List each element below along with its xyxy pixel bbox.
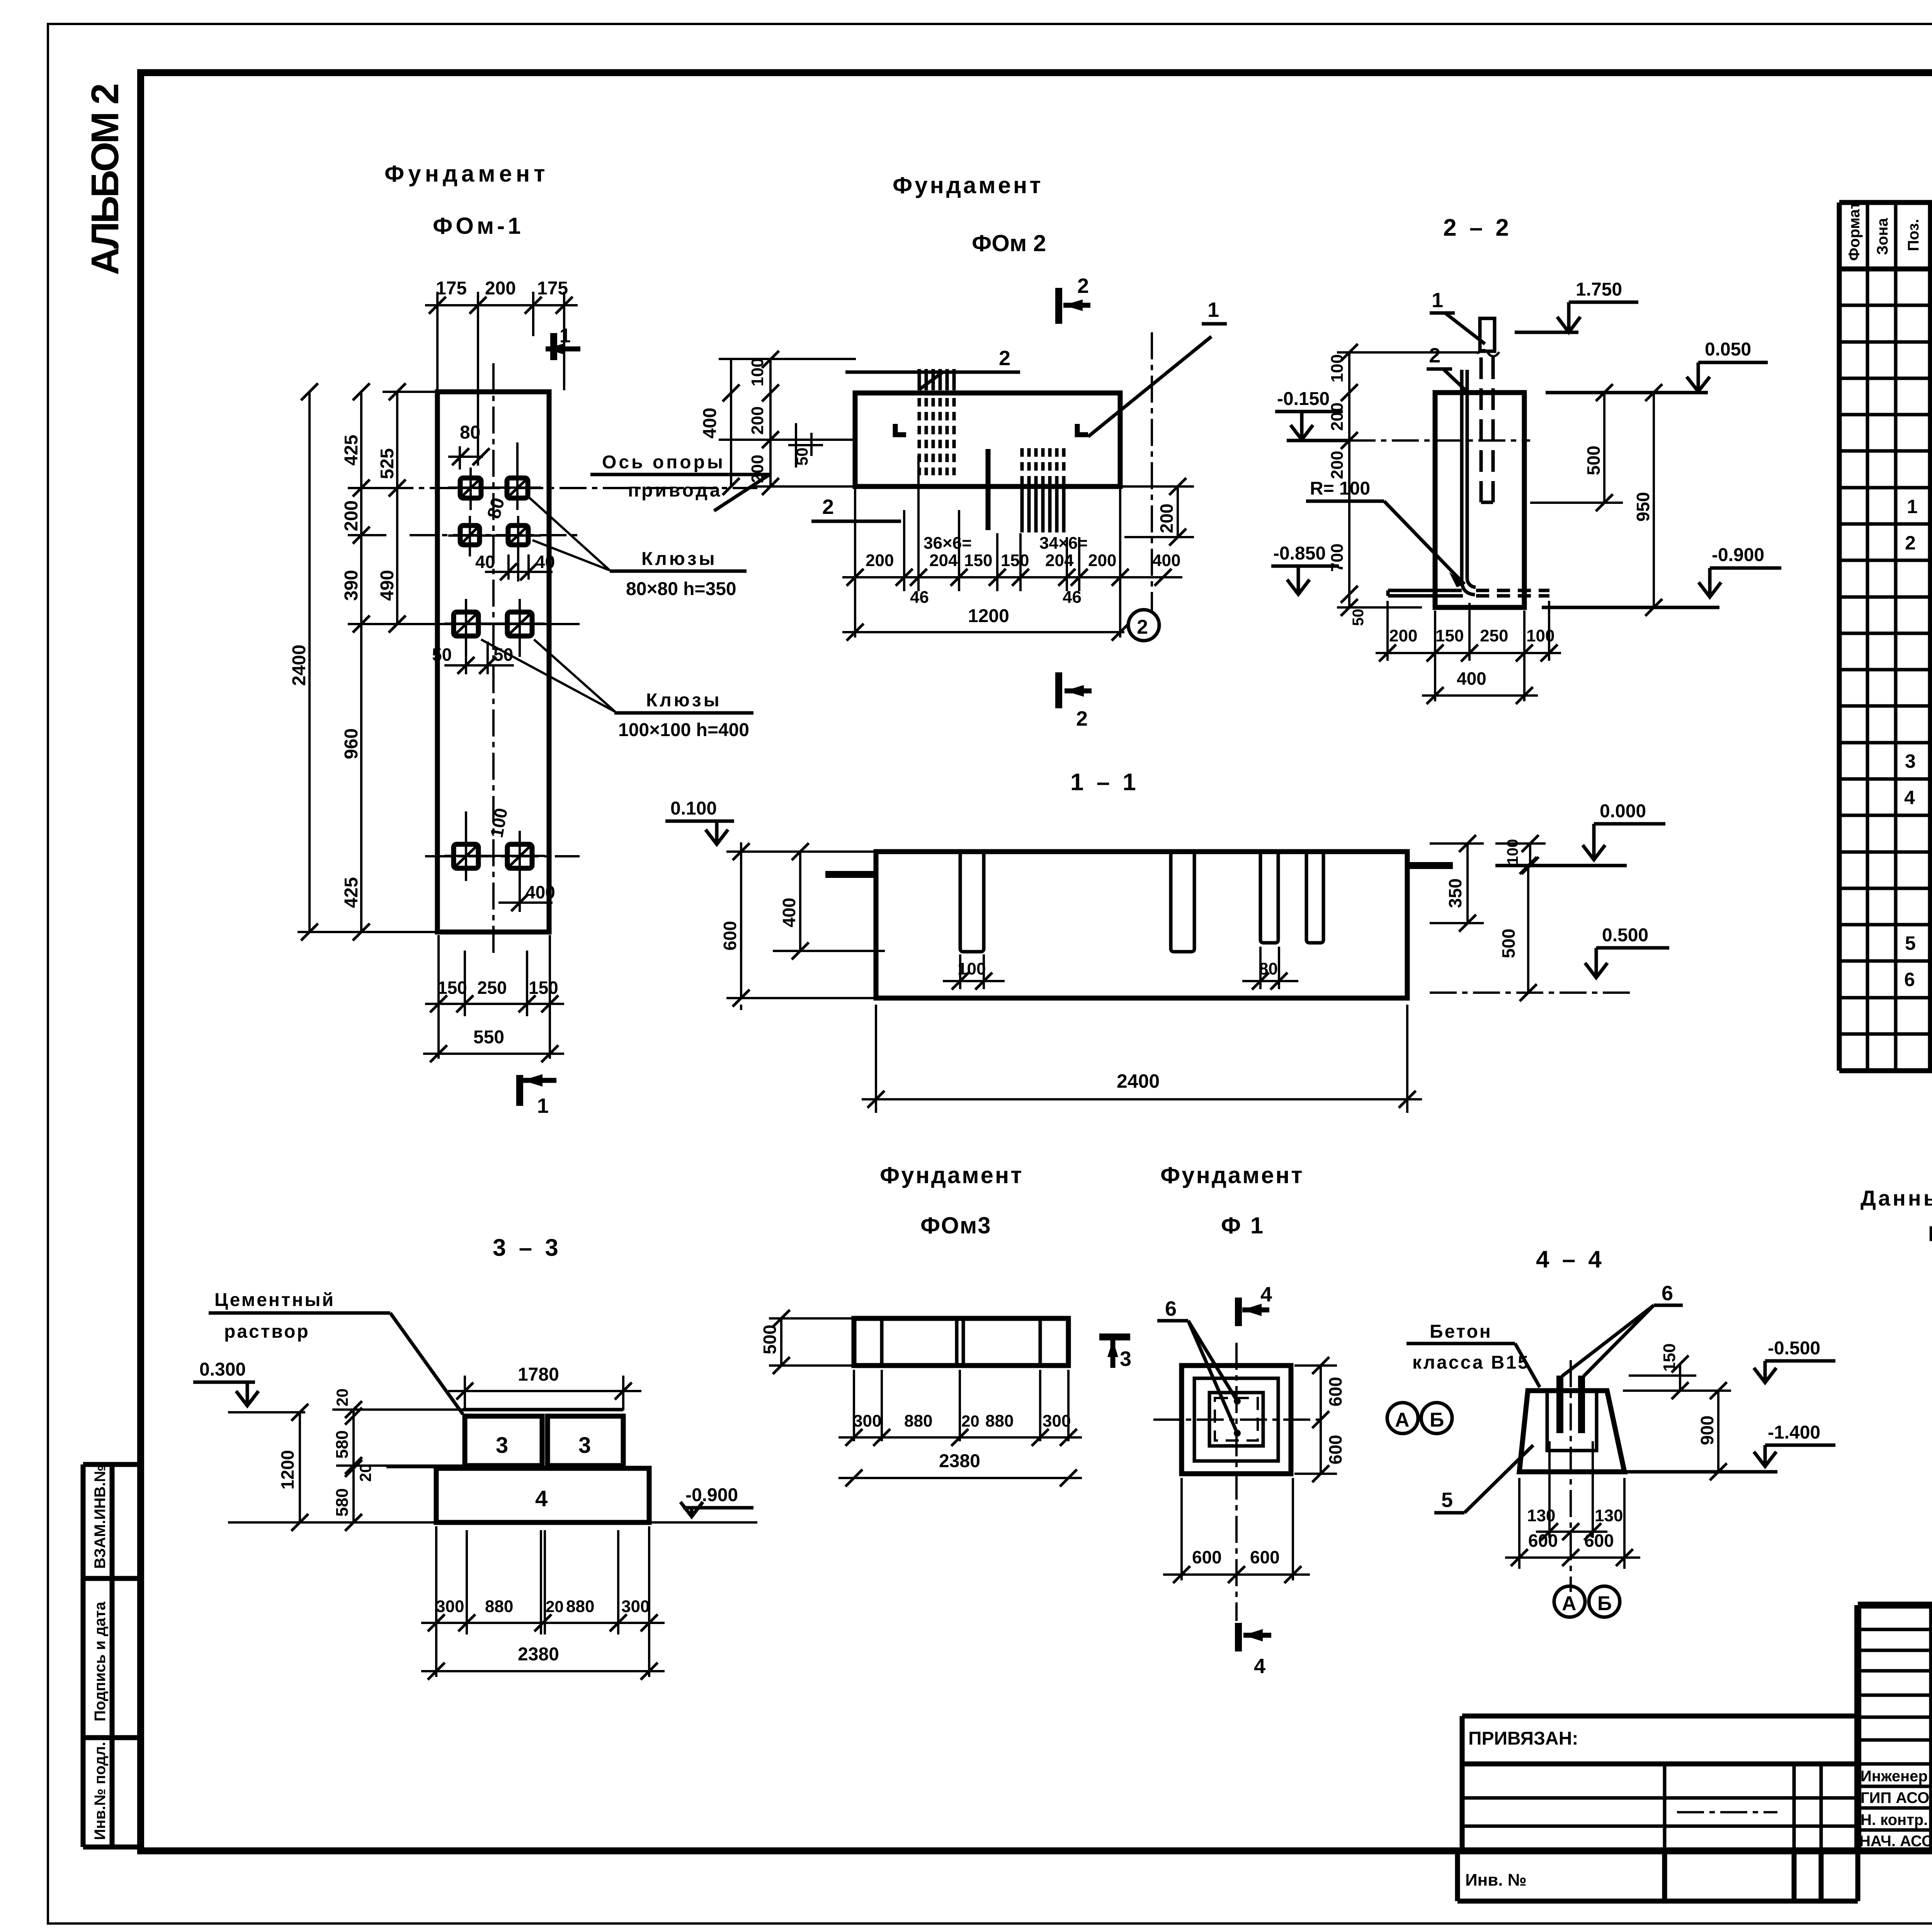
svg-text:2: 2 (822, 495, 834, 519)
svg-text:3: 3 (1905, 750, 1916, 772)
svg-text:425: 425 (341, 435, 362, 466)
svg-text:2: 2 (1429, 344, 1440, 367)
svg-text:900: 900 (1697, 1415, 1717, 1445)
svg-text:350: 350 (1445, 878, 1465, 908)
TITLEBLOCK (1458, 1605, 1932, 1901)
SEC33 (193, 1235, 757, 1680)
svg-text:150: 150 (437, 978, 467, 998)
leaders to kluyz squares (529, 498, 610, 570)
svg-text:960: 960 (341, 728, 362, 759)
svg-text:150: 150 (1660, 1344, 1679, 1372)
svg-text:ФОм3: ФОм3 (920, 1213, 992, 1238)
svg-text:2380: 2380 (939, 1451, 980, 1471)
svg-text:2: 2 (1076, 707, 1088, 730)
svg-text:-1.400: -1.400 (1768, 1422, 1820, 1443)
svg-text:204: 204 (929, 551, 958, 570)
dim 50 (788, 423, 823, 468)
block 4 (436, 1468, 649, 1522)
svg-text:5: 5 (1905, 932, 1916, 954)
svg-text:250: 250 (1480, 626, 1508, 645)
svg-text:200: 200 (1389, 626, 1417, 645)
svg-text:ФОм-1: ФОм-1 (433, 213, 524, 239)
svg-text:раствор: раствор (224, 1321, 310, 1342)
leader 1 to pipe (1430, 289, 1485, 344)
svg-text:100×100 h=400: 100×100 h=400 (618, 720, 749, 740)
inner dashed square (1215, 1398, 1258, 1440)
svg-text:20: 20 (356, 1464, 374, 1482)
svg-text:2: 2 (1905, 532, 1916, 554)
svg-text:600: 600 (720, 921, 740, 951)
svg-text:НАЧ. АСО: НАЧ. АСО (1859, 1833, 1932, 1850)
internal joints (882, 1318, 1040, 1366)
svg-text:класса В15: класса В15 (1412, 1352, 1530, 1373)
level -0.500 (1754, 1338, 1835, 1383)
level 0.500 (1430, 925, 1669, 993)
left dim 400 (773, 852, 885, 951)
svg-text:2: 2 (999, 347, 1010, 370)
slot 1 (960, 852, 984, 952)
dim 2380 (838, 1477, 1082, 1479)
svg-text:600: 600 (1250, 1547, 1280, 1567)
svg-text:300: 300 (436, 1597, 464, 1616)
svg-text:200: 200 (1328, 403, 1347, 431)
svg-text:950: 950 (1633, 492, 1653, 522)
svg-text:600: 600 (1325, 1377, 1345, 1406)
svg-text:20: 20 (546, 1597, 564, 1616)
svg-text:200: 200 (748, 455, 767, 483)
svg-text:0.500: 0.500 (1602, 925, 1648, 946)
svg-text:ПРИВЯЗАН:: ПРИВЯЗАН: (1468, 1728, 1578, 1749)
section mark 3 (right) (1099, 1337, 1131, 1371)
left dim chain 20/580/20/580 (286, 1410, 464, 1522)
left dim chain of 2-2 (1337, 352, 1480, 607)
slot 2 (1171, 852, 1194, 952)
svg-text:400: 400 (1152, 551, 1180, 570)
svg-text:4: 4 (1904, 787, 1915, 808)
leader 2 (bottom-left) (811, 495, 901, 521)
svg-text:200: 200 (485, 278, 516, 299)
FOm3 plan bar (854, 1318, 1068, 1366)
svg-text:Фундамент: Фундамент (384, 161, 549, 187)
svg-text:46: 46 (1063, 588, 1082, 607)
svg-text:Б: Б (1430, 1409, 1444, 1431)
svg-text:400: 400 (526, 882, 555, 902)
svg-text:400: 400 (700, 408, 720, 439)
svg-text:580: 580 (333, 1430, 352, 1459)
horizontal bar left (solid) (1388, 590, 1463, 596)
svg-text:АЛЬБОМ 2: АЛЬБОМ 2 (83, 85, 127, 275)
svg-text:1200: 1200 (277, 1450, 298, 1490)
section mark 2 (bottom) (1059, 672, 1092, 730)
svg-text:-0.900: -0.900 (685, 1485, 738, 1505)
svg-text:46: 46 (910, 588, 929, 607)
kluyz square r4-left (454, 844, 478, 868)
FOM1 (289, 278, 770, 1117)
svg-text:Поз.: Поз. (1905, 219, 1922, 251)
protruding bar left (825, 871, 876, 878)
svg-text:-0.500: -0.500 (1768, 1338, 1820, 1359)
NOTE (1861, 1186, 1932, 1246)
section mark 2 (top) (1059, 274, 1090, 324)
svg-text:Ф 1: Ф 1 (1221, 1213, 1265, 1238)
block 3 right (548, 1416, 623, 1466)
svg-text:34×6=: 34×6= (1039, 534, 1088, 553)
svg-text:36×6=: 36×6= (923, 534, 972, 553)
SEC22 (1271, 214, 1781, 704)
svg-text:6: 6 (1662, 1282, 1673, 1305)
dim 40 40 row2 (485, 554, 553, 580)
section mark 4 (top) (1238, 1283, 1272, 1326)
pipe above (solid) (1480, 318, 1495, 351)
svg-text:600: 600 (1584, 1531, 1614, 1551)
level -1.400 (1624, 1422, 1835, 1472)
svg-text:50: 50 (793, 447, 811, 466)
svg-text:880: 880 (485, 1597, 513, 1616)
leader 6 (4-4) (1562, 1282, 1683, 1376)
anchor angle bar bend + horizontal (1462, 580, 1476, 595)
svg-text:200: 200 (1156, 503, 1177, 533)
svg-text:3: 3 (578, 1433, 591, 1458)
svg-text:-0.850: -0.850 (1273, 543, 1326, 564)
svg-text:5: 5 (1441, 1488, 1453, 1512)
svg-text:500: 500 (1498, 929, 1519, 958)
level -0.150 (1275, 389, 1530, 440)
svg-text:ФОм 2: ФОм 2 (972, 230, 1046, 256)
F1 (1153, 1162, 1452, 1678)
svg-text:0.000: 0.000 (1600, 801, 1646, 821)
trapezoid footing (1519, 1391, 1624, 1472)
svg-text:100: 100 (957, 959, 986, 978)
svg-text:Зона: Зона (1874, 218, 1891, 255)
leader 5 (1434, 1445, 1533, 1513)
svg-text:Клюзы: Клюзы (641, 549, 717, 569)
protruding bar right (1407, 862, 1453, 869)
right dim 100 (1495, 844, 1546, 866)
cement mortar joint line (463, 1408, 623, 1412)
dim 2380 (421, 1670, 665, 1672)
dim 100 under slot1 (943, 954, 1005, 989)
svg-text:4: 4 (1260, 1283, 1272, 1306)
svg-text:390: 390 (341, 570, 362, 601)
slab profile (876, 852, 1407, 998)
svg-text:525: 525 (377, 448, 398, 479)
centerline row 2 (410, 534, 580, 536)
svg-text:Подпись и дата: Подпись и дата (92, 1601, 109, 1721)
svg-text:100: 100 (748, 358, 767, 386)
dim 900 right (1623, 1391, 1731, 1472)
dim 80 under slot3 (1242, 947, 1298, 989)
dash-dot in cell (1677, 1811, 1777, 1813)
svg-text:300: 300 (621, 1597, 650, 1616)
leader 1 (1088, 298, 1227, 437)
foundation FOm2 outline (855, 393, 1120, 486)
svg-text:Б: Б (1597, 1592, 1612, 1615)
leader 2 (top) (845, 347, 1020, 389)
bottom dim 400 (1422, 694, 1538, 697)
inventory band below frame (1458, 1851, 1858, 1901)
label R=100 (1306, 478, 1464, 587)
angle corner mark left (pos.1) (895, 424, 906, 435)
level -0.900 (3-3) (680, 1485, 753, 1517)
anchor angle bar vertical (1462, 370, 1467, 582)
table grid vertical lines (1839, 202, 1932, 1071)
svg-text:80×80 h=350: 80×80 h=350 (626, 579, 736, 599)
svg-text:200: 200 (1088, 551, 1116, 570)
svg-text:2380: 2380 (518, 1644, 559, 1665)
right dim 350 (1430, 844, 1484, 923)
svg-text:Формат: Формат (1846, 202, 1863, 261)
leader 2 to angle (1427, 344, 1466, 390)
svg-text:ГИП АСО: ГИП АСО (1861, 1789, 1929, 1806)
section mark 1 (top) (546, 325, 580, 360)
svg-text:6: 6 (1165, 1297, 1177, 1320)
centre divider bar (986, 449, 991, 530)
left dim chain 100/200/200 (719, 359, 856, 486)
table grid horizontal lines (1839, 202, 1932, 1071)
svg-text:300: 300 (853, 1412, 881, 1430)
bottom dim chain 200/150/250/100 (1376, 601, 1561, 701)
svg-text:КЖ1 и КЖ2.: КЖ1 и КЖ2. (1928, 1221, 1932, 1246)
dim 80 above row1 squares (448, 446, 483, 469)
svg-text:0.300: 0.300 (199, 1359, 246, 1380)
svg-text:150: 150 (964, 551, 992, 570)
svg-text:1 – 1: 1 – 1 (1070, 769, 1139, 796)
chain ticks (301, 383, 318, 400)
left dim chain verticals (298, 392, 439, 932)
svg-text:600: 600 (1192, 1547, 1222, 1567)
svg-text:1780: 1780 (518, 1364, 559, 1385)
axis dash-dot down to circle 2 (1151, 332, 1153, 611)
center line (1570, 1360, 1572, 1592)
horizontal bar right (dashed) (1476, 590, 1549, 596)
svg-text:150: 150 (529, 978, 558, 998)
svg-text:Клюзы: Клюзы (646, 690, 722, 711)
svg-text:2400: 2400 (289, 645, 310, 686)
pipe break squiggle (1477, 350, 1499, 356)
bolts (1556, 1376, 1563, 1433)
svg-text:Фундамент: Фундамент (880, 1162, 1024, 1188)
svg-text:2400: 2400 (1117, 1070, 1160, 1092)
right dim 500 (1530, 393, 1623, 503)
svg-text:R= 100: R= 100 (1310, 478, 1370, 499)
svg-text:425: 425 (341, 877, 362, 908)
kluyz square r2-right (508, 526, 528, 545)
svg-text:4: 4 (1254, 1655, 1265, 1678)
svg-text:150: 150 (1001, 551, 1029, 570)
svg-text:20: 20 (333, 1388, 351, 1406)
svg-text:200: 200 (748, 406, 767, 435)
svg-text:2: 2 (1077, 274, 1089, 298)
svg-text:500: 500 (760, 1325, 780, 1354)
center lines (1153, 1418, 1321, 1421)
svg-text:Ось опоры: Ось опоры (602, 452, 725, 473)
dim 130/130 (1536, 1441, 1607, 1538)
axis circles A B below (1554, 1586, 1585, 1617)
svg-text:3 – 3: 3 – 3 (493, 1235, 561, 1261)
section mark 4 (bottom) (1238, 1623, 1271, 1678)
title block outer box (1858, 1605, 1932, 1851)
centerline row 3 (400, 623, 580, 625)
bottom dim chain of FOm2 (842, 456, 1182, 638)
small centerline crosses on squares (444, 442, 545, 900)
svg-text:40: 40 (475, 552, 495, 572)
svg-text:150: 150 (1435, 626, 1464, 645)
svg-text:1: 1 (1432, 289, 1443, 312)
svg-text:0.050: 0.050 (1705, 339, 1751, 360)
overall dim 2400 (862, 1005, 1422, 1113)
svg-text:-0.150: -0.150 (1277, 389, 1330, 409)
svg-text:175: 175 (537, 278, 568, 299)
svg-text:20: 20 (961, 1412, 980, 1430)
kluyz square r2-left (460, 526, 480, 545)
privyazan sub rows (1462, 1798, 1858, 1826)
svg-text:6: 6 (1904, 969, 1915, 990)
svg-text:250: 250 (477, 978, 507, 998)
bottom dim 600/600 (1163, 1478, 1310, 1580)
svg-text:200: 200 (341, 500, 362, 531)
svg-text:Инв. №: Инв. № (1465, 1871, 1527, 1889)
svg-text:Бетон: Бетон (1430, 1321, 1492, 1342)
level -0.900 (1542, 545, 1781, 607)
svg-text:Н. контр.: Н. контр. (1861, 1811, 1928, 1828)
svg-text:50: 50 (1350, 609, 1367, 626)
svg-text:3: 3 (1120, 1347, 1131, 1371)
FOM3 (760, 1162, 1131, 1486)
svg-text:Цементный: Цементный (214, 1290, 335, 1310)
rebar hatch group 2 (dashed studs) (1022, 448, 1064, 485)
svg-text:130: 130 (1595, 1506, 1623, 1525)
svg-text:550: 550 (473, 1027, 504, 1048)
svg-text:4 – 4: 4 – 4 (1536, 1246, 1605, 1273)
svg-text:880: 880 (904, 1412, 932, 1430)
foundation block section (1435, 393, 1524, 607)
dim 50 50 row3 (444, 641, 514, 674)
svg-text:А: А (1562, 1592, 1577, 1615)
svg-text:1.750: 1.750 (1576, 279, 1622, 300)
axis line (Ось опоры привода) (386, 487, 757, 489)
bottom dims 300/880/20/880/300 (421, 1526, 665, 1677)
svg-text:1: 1 (1907, 496, 1918, 517)
svg-text:2: 2 (1137, 616, 1148, 638)
svg-text:880: 880 (566, 1597, 594, 1616)
svg-text:50: 50 (432, 645, 452, 665)
svg-text:100: 100 (1504, 839, 1521, 865)
kluyz square r1-left (460, 478, 481, 498)
svg-text:400: 400 (1457, 668, 1486, 689)
svg-text:100: 100 (1328, 354, 1347, 383)
ground line right (649, 1521, 757, 1524)
level 0.000 (1495, 801, 1665, 866)
axis circle 2 (1128, 610, 1159, 641)
svg-text:-0.900: -0.900 (1712, 545, 1764, 565)
leader 6 (1157, 1297, 1241, 1437)
bottom dim 550 (423, 1053, 564, 1055)
overall dim 1200 (842, 631, 1124, 633)
svg-text:600: 600 (1528, 1531, 1558, 1551)
dim 1780 (448, 1376, 641, 1410)
svg-text:ВЗАМ.ИНВ.№: ВЗАМ.ИНВ.№ (92, 1465, 109, 1569)
bottom dim chain 150,250,150 (425, 935, 564, 1059)
left dim 500 (769, 1318, 852, 1366)
dim 400 below row4 (498, 885, 553, 912)
svg-text:1200: 1200 (968, 606, 1009, 626)
slot 4 (1306, 852, 1323, 943)
kluyz square r3-right (507, 612, 532, 636)
svg-text:204: 204 (1045, 551, 1074, 570)
level 0.050 (1546, 339, 1768, 393)
svg-text:490: 490 (377, 570, 398, 601)
level -0.850 (1271, 543, 1339, 594)
joint line above block4 (386, 1466, 436, 1468)
left dim 600 (726, 852, 877, 998)
bottom dims 300/880/20/880/300 (838, 1370, 1082, 1441)
foundation FOm-1 outline (437, 392, 549, 932)
right dim chain 600/600 (1294, 1366, 1337, 1474)
svg-text:Фундамент: Фундамент (1160, 1162, 1304, 1188)
svg-text:130: 130 (1527, 1506, 1555, 1525)
SEC44 (1406, 1246, 1835, 1617)
svg-text:175: 175 (436, 278, 467, 299)
level 0.300 (193, 1359, 305, 1412)
privyazan box (1462, 1716, 1858, 1851)
svg-text:Инв.№ подл.: Инв.№ подл. (92, 1742, 109, 1840)
SEC11 (665, 769, 1669, 1113)
dim 150 right (1629, 1364, 1696, 1391)
angle corner mark right (pos.1) (1077, 424, 1088, 435)
svg-text:Инженер: Инженер (1861, 1768, 1928, 1785)
svg-text:880: 880 (985, 1412, 1014, 1430)
svg-text:1: 1 (560, 325, 571, 347)
kluyz square r1-right (507, 478, 528, 498)
axis circles A B (1387, 1403, 1418, 1434)
outer square (1182, 1366, 1291, 1474)
svg-text:Фундамент: Фундамент (893, 172, 1043, 198)
vertical centerline (492, 363, 495, 954)
central grid verticals (1932, 1605, 1932, 1851)
svg-text:100: 100 (1526, 626, 1554, 645)
svg-text:500: 500 (1583, 446, 1604, 475)
svg-text:1: 1 (537, 1094, 549, 1117)
slot 3 (1260, 852, 1278, 943)
left margin mini-table (83, 1464, 141, 1847)
FOM2 (700, 274, 1227, 730)
right dim 200 (1122, 486, 1194, 537)
svg-text:40: 40 (535, 552, 555, 572)
svg-text:1: 1 (1207, 298, 1219, 321)
dim 600/600 (4-4) (1505, 1478, 1640, 1569)
kluyz square r3-left (454, 612, 478, 636)
kluyz square r4-right (507, 844, 532, 868)
svg-text:80: 80 (1259, 959, 1278, 978)
rebar hatch group 1 (dashed studs) (919, 369, 954, 390)
svg-text:700: 700 (1328, 544, 1347, 572)
leaders to kluyz squares row3 (481, 639, 615, 712)
pipe below (dashed) (1481, 357, 1493, 502)
SPECTABLE (1839, 161, 1932, 1071)
inner square (1209, 1393, 1263, 1446)
block 3 left (465, 1416, 542, 1466)
svg-text:200: 200 (1328, 451, 1347, 479)
pocket (1547, 1391, 1597, 1451)
svg-text:300: 300 (1043, 1412, 1071, 1430)
right dim 950 (1653, 393, 1655, 607)
svg-text:2 – 2: 2 – 2 (1443, 214, 1512, 241)
section mark 1 (bottom) (520, 1074, 556, 1117)
middle square (1194, 1378, 1278, 1461)
central grid row lines (1858, 1629, 1932, 1830)
svg-text:580: 580 (333, 1488, 352, 1517)
centerline row 4 (425, 855, 580, 857)
